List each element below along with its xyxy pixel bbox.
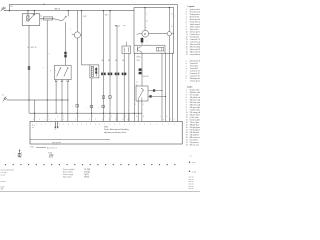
pin labels on x169.3 [171, 14, 173, 29]
wire x129 below B12 [128, 54, 130, 122]
svg-text:W1: W1 [10, 6, 13, 8]
relay pin stub right [33, 11, 35, 14]
svg-text:W34 2k: W34 2k [143, 76, 149, 78]
legend paragraph bottom-right [189, 177, 194, 191]
relay K30 box [22, 14, 40, 26]
junction dot y100 x67.9 [67, 99, 68, 100]
svg-text:xxxx xxxxxxx: xxxx xxxxxxx [52, 142, 61, 144]
junction dot on bus x=28.0 [27, 10, 28, 11]
svg-text:W11 1k: W11 1k [31, 47, 37, 49]
wire: frame drop to bus x=9.4 [8, 4, 10, 10]
relay switch arm with arrow [28, 14, 35, 22]
wire x47.2 from fuse down [46, 20, 48, 100]
junction dot on bus x=110 [109, 10, 110, 11]
inline connector pair x=117 [115, 73, 120, 76]
relay pin stub left [27, 11, 29, 16]
svg-text:15: 15 [186, 44, 188, 46]
svg-text:13: 13 [186, 120, 188, 122]
connector right of S40 upper [148, 89, 163, 91]
pump right stub [172, 33, 174, 35]
wire x29 y100-113 [28, 100, 30, 113]
svg-text:xx x: xx x [32, 125, 35, 127]
svg-text:d: d [186, 68, 187, 70]
svg-text:3: 3 [186, 14, 187, 16]
junction dot on bus x=68.2 [68, 10, 69, 11]
svg-text:14: 14 [186, 122, 188, 124]
ECU arrow pin 2 [57, 122, 59, 128]
ECU lower text [52, 142, 61, 146]
motor M circle [142, 30, 149, 37]
wire module output down [90, 78, 92, 113]
svg-text:3: 3 [186, 95, 187, 97]
svg-text:xx xxx: xx xxx [192, 171, 197, 173]
bottom-left post symbol [18, 149, 22, 157]
junction dot y100 x29 [28, 99, 29, 100]
svg-text:W35: W35 [137, 60, 140, 62]
ECU arrow pin 1 [55, 122, 57, 128]
svg-text:KB cable blk: KB cable blk [190, 135, 199, 137]
component box B12 [122, 46, 131, 54]
legend bottom small nums [190, 156, 192, 158]
svg-text:DG dark green: DG dark green [190, 130, 200, 132]
svg-text:g: g [186, 76, 187, 78]
svg-text:30: 30 [4, 7, 6, 9]
pin stub x=77.3 to ECU [76, 113, 78, 121]
svg-text:Wire born W11: Wire born W11 [190, 44, 200, 46]
svg-text:xxxx xx: xxxx xx [189, 179, 194, 181]
svg-text:e: e [186, 71, 187, 73]
junction dot box top x169.3 [169, 7, 170, 8]
footer rule [0, 190, 200, 192]
svg-text:5: 5 [186, 100, 187, 102]
relay coil resistor hatched [27, 16, 29, 21]
S40 pins [138, 98, 142, 102]
pin drop x47.2 [47, 99, 48, 121]
svg-text:10: 10 [186, 112, 188, 114]
svg-text:a2: a2 [40, 16, 42, 18]
connector right of S40 lower [148, 95, 166, 97]
wire fuse to switch [53, 19, 62, 21]
svg-text:23: 23 [186, 145, 188, 147]
svg-text:W12: W12 [105, 14, 109, 16]
wire motor to blob [141, 37, 143, 38]
connector blob pair on x29 [28, 66, 30, 69]
svg-text:xxxx xx: xxxx xx [189, 186, 194, 188]
svg-text:BR brown cable: BR brown cable [190, 105, 200, 107]
svg-text:xxxx xx: xxxx xx [189, 177, 194, 179]
svg-text:Codes: Codes [187, 87, 193, 89]
wire x145 to motor [144, 8, 146, 31]
current-track dots row [5, 164, 176, 165]
svg-text:MB main born: MB main born [190, 137, 200, 139]
S40 contact [139, 88, 144, 98]
pin drop x34.5 [34, 100, 36, 121]
junction dot frame/bus [9, 10, 10, 11]
svg-text:NL null line: NL null line [190, 140, 198, 142]
wire: frame top y=4.3 [9, 3, 177, 5]
wire x169.3 top [168, 8, 170, 32]
svg-text:BL blue cable: BL blue cable [190, 90, 200, 92]
wire S2 pin1 down [55, 82, 57, 113]
svg-text:LI lilac cable: LI lilac cable [190, 117, 199, 119]
svg-text:Wire born W12: Wire born W12 [190, 47, 200, 49]
gauge circle G1 [74, 32, 80, 38]
ground feed symbol left mid [2, 94, 7, 101]
svg-text:21: 21 [186, 140, 188, 142]
splice blob pair on x65.6 [64, 52, 66, 58]
fuse F8 [43, 17, 53, 20]
svg-text:EL ivory cable: EL ivory cable [190, 120, 200, 122]
svg-text:Terminal 15: Terminal 15 [190, 63, 198, 65]
ECU pin numbers row inside [32, 124, 175, 126]
svg-text:8: 8 [41, 19, 42, 21]
svg-text:b: b [186, 63, 187, 65]
ECU inner divider [30, 139, 110, 141]
svg-text:xxxx xx: xxxx xx [189, 184, 194, 186]
svg-text:20: 20 [186, 137, 188, 139]
svg-text:Max output: Max output [63, 176, 72, 179]
svg-text:1: 1 [186, 90, 187, 92]
connector mark on x103.4 [98, 105, 104, 108]
inner connector ticks [158, 48, 162, 52]
stacked pin labels [136, 81, 138, 86]
svg-text:xxx xxxxx: xxx xxxxx [52, 144, 59, 146]
svg-text:31: 31 [2, 94, 4, 96]
pin stub x=134.3 to ECU [133, 113, 135, 121]
inline connector pair x=124 [122, 73, 127, 76]
svg-text:1 DD: 1 DD [48, 153, 53, 155]
wire x81.5 from bus to module [82, 11, 90, 65]
lower switch box S40 [136, 86, 148, 101]
svg-text:14: 14 [186, 42, 188, 44]
svg-text:22: 22 [186, 142, 188, 144]
S2 bottom pins [55, 80, 69, 82]
pin number labels above ECU [33, 119, 129, 121]
svg-text:B11 x: B11 x [31, 146, 35, 148]
labels below motor box [137, 57, 142, 62]
junction dot box top x145 [144, 7, 145, 8]
ECU main box [30, 121, 182, 144]
transistor symbol in inner box [138, 46, 142, 52]
wire S40 pin2 down [141, 101, 143, 121]
svg-text:a: a [186, 61, 187, 63]
svg-text:5: 5 [186, 19, 187, 21]
svg-text:8: 8 [186, 107, 187, 109]
label W12.1 [115, 25, 126, 27]
fuse black blob [141, 38, 144, 43]
pin stub x=124.2 to ECU [123, 113, 125, 121]
svg-text:Power Steering and Handling: Power Steering and Handling [104, 128, 129, 131]
svg-text:Shield ground: Shield ground [190, 78, 200, 80]
legend bullet 2 [189, 171, 197, 174]
resistor module box [90, 65, 99, 78]
svg-text:1: 1 [186, 9, 187, 11]
wire x134.3 down [133, 53, 135, 113]
wire between motors y33.7 [149, 33, 167, 35]
junction dot on bus x=34.4 [34, 10, 35, 11]
svg-text:xx xxx: xx xxx [1, 174, 6, 176]
switch assembly box S2 [55, 65, 72, 80]
svg-text:xxxx xx: xxxx xx [189, 181, 194, 183]
svg-text:Chassis ground: Chassis ground [190, 81, 200, 83]
svg-text:SW black cable: SW black cable [190, 92, 200, 94]
svg-text:17: 17 [186, 49, 188, 51]
inline connector pair x=110 [108, 73, 113, 76]
pin labels mid row [36, 116, 127, 118]
svg-text:x1: x1 [171, 14, 173, 16]
ignition switch contact [62, 16, 67, 21]
pin stub x=128.9 to ECU [128, 113, 130, 121]
svg-text:GE yellow cable: GE yellow cable [190, 97, 200, 99]
bundle wire x169.3 down [168, 36, 170, 122]
motor assembly outer box [134, 8, 174, 54]
svg-text:4k: 4k [122, 60, 124, 62]
inline connector pair x=103.4 [101, 73, 106, 76]
svg-text:W34 1: W34 1 [137, 57, 142, 59]
svg-text:GN green cable: GN green cable [190, 100, 200, 102]
svg-text:1a: 1a [136, 81, 138, 83]
label row above connector row [102, 60, 124, 62]
svg-text:Bxx x Pxx 1.3: Bxx x Pxx 1.3 [47, 148, 57, 150]
svg-text:OR orange cbl: OR orange cbl [190, 112, 200, 114]
svg-text:x 5: x 5 [190, 156, 192, 158]
svg-text:900: 900 [1, 189, 4, 191]
svg-text:10: 10 [186, 32, 188, 34]
wire x65.6 from switch down [65, 22, 67, 65]
junction dots on ECU bus [34, 113, 135, 114]
resistor element hatched [91, 66, 97, 76]
svg-text:RT red cable: RT red cable [190, 95, 199, 97]
svg-text:6: 6 [186, 102, 187, 104]
pump small circle [167, 32, 171, 36]
B12 top stub [125, 42, 127, 47]
legend bullet 1 [189, 162, 196, 165]
svg-text:adjusting and power thrust: adjusting and power thrust [104, 131, 127, 134]
svg-text:GR grey cable: GR grey cable [190, 107, 200, 109]
svg-text:7: 7 [186, 24, 187, 26]
bundle wire x165.5 [165, 53, 167, 121]
svg-text:11: 11 [186, 34, 188, 36]
svg-text:Terminal 54: Terminal 54 [190, 68, 198, 70]
svg-text:M: M [144, 34, 146, 36]
connector mark on x91.4 [86, 105, 92, 108]
S2 contact 2 [64, 67, 69, 76]
svg-text:1: 1 [146, 14, 147, 16]
junction mark on frame x44 [43, 4, 44, 5]
wire x77.3 below gauge [76, 38, 78, 113]
gauge left actuator [72, 34, 75, 35]
junction dot on bus x=81.5 [81, 10, 82, 11]
svg-text:Fuse box main: Fuse box main [190, 12, 200, 14]
wire: +30 bus y=10.6 [4, 10, 134, 12]
connector mark on x110 [102, 96, 111, 99]
wire x142 below inner box [141, 53, 143, 86]
connector blob pair on x142 [139, 68, 142, 74]
svg-text:Saab: Saab [1, 186, 5, 188]
svg-text:+: + [72, 106, 73, 108]
relay switch pin vertical [33, 14, 35, 15]
legend column [186, 6, 202, 147]
svg-text:xxxx xx: xxxx xx [189, 188, 194, 190]
svg-text:RS pink cable: RS pink cable [190, 115, 200, 117]
wire x117 down [115, 26, 117, 122]
svg-text:h: h [186, 78, 187, 80]
wire x77.3 from bus [76, 11, 78, 32]
svg-text:xxxx xx: xxxx xx [1, 181, 6, 183]
S2 contact 1 [57, 67, 62, 76]
leader line below ECU [36, 147, 46, 149]
svg-text:4: 4 [186, 97, 187, 99]
wire x124 below B12 [123, 54, 125, 122]
wire horizontal y100 [7, 99, 68, 101]
wire x103.4 bus to ECU [102, 11, 104, 122]
svg-text:13: 13 [186, 39, 188, 41]
inner compartment divider [134, 45, 165, 53]
svg-text:17: 17 [186, 130, 188, 132]
relay output wire down x29 [28, 25, 30, 100]
svg-text:4: 4 [186, 17, 187, 19]
svg-text:19: 19 [186, 135, 188, 137]
footer id text [1, 186, 5, 190]
svg-text:+: + [98, 107, 99, 109]
battery feed symbol 30 top-left [1, 7, 6, 12]
bundle wire x172.7 [172, 53, 174, 121]
svg-text:W12.1: W12.1 [115, 25, 120, 27]
wire ECU bus y113 [29, 112, 142, 114]
bundle pin labels [163, 119, 175, 121]
svg-text:11: 11 [186, 115, 188, 117]
svg-text:W12.4: W12.4 [55, 9, 60, 11]
ECU small text left [32, 125, 35, 129]
svg-text:19: 19 [186, 54, 188, 56]
S40 pin labels [135, 104, 144, 106]
svg-text:+: + [86, 107, 87, 109]
bundle pin labels mid [136, 116, 167, 118]
wire S40 pin1 down [137, 101, 139, 121]
junction dot y100 x62 [61, 99, 62, 100]
svg-text:4k: 4k [108, 60, 110, 62]
svg-text:12: 12 [186, 117, 188, 119]
label W11 on relay output [28, 47, 37, 49]
svg-text:18: 18 [186, 52, 188, 54]
svg-text:4k: 4k [115, 60, 117, 62]
svg-text:xx xx: xx xx [192, 162, 196, 164]
junction dot on bus x=103.4 [103, 10, 104, 11]
ground hatch symbol [49, 155, 54, 158]
wire relay to fuse [40, 18, 43, 20]
svg-text:+: + [14, 153, 15, 155]
svg-text:M1: M1 [136, 34, 138, 36]
wire switch up to bus [67, 11, 69, 17]
svg-text:2: 2 [186, 12, 187, 14]
svg-text:9: 9 [186, 29, 187, 31]
wire blob to inner box [141, 43, 143, 46]
svg-text:x2: x2 [171, 26, 173, 28]
wire: frame right x=177.3 [176, 4, 178, 121]
svg-text:8: 8 [186, 27, 187, 29]
inner connector rect [156, 48, 164, 52]
svg-text:15: 15 [186, 125, 188, 127]
pin stub x=91.4 to ECU [90, 113, 92, 121]
bottom-center spec table [63, 168, 91, 179]
svg-text:W12: W12 [83, 16, 87, 18]
B12 internals [124, 47, 128, 52]
motor left stub [139, 33, 142, 35]
svg-text:16: 16 [186, 127, 188, 129]
svg-text:2P(1x): 2P(1x) [84, 177, 89, 179]
svg-text:DB dark blue: DB dark blue [190, 132, 199, 134]
svg-text:Terminal 31: Terminal 31 [190, 66, 198, 68]
svg-text:16: 16 [186, 47, 188, 49]
svg-text:7: 7 [186, 105, 187, 107]
wire S2 pin3 down [67, 82, 69, 122]
pin stub x=117 to ECU [116, 113, 118, 121]
svg-text:a: a [70, 29, 71, 31]
svg-text:Legend: Legend [188, 6, 196, 8]
svg-text:xx: xx [32, 127, 34, 129]
bundle wire x162 [161, 53, 163, 121]
bottom-left text block [1, 169, 15, 177]
svg-text:4k: 4k [102, 60, 104, 62]
wire S2 pin2 down [61, 82, 63, 122]
svg-text:9: 9 [186, 110, 187, 112]
svg-text:2: 2 [186, 92, 187, 94]
wire x110 from bus [109, 11, 111, 122]
svg-text:x x: x x [54, 129, 56, 131]
svg-text:6: 6 [186, 22, 187, 24]
svg-text:18: 18 [186, 132, 188, 134]
svg-text:12: 12 [186, 37, 188, 39]
connector mark on x77.3 [72, 104, 78, 107]
